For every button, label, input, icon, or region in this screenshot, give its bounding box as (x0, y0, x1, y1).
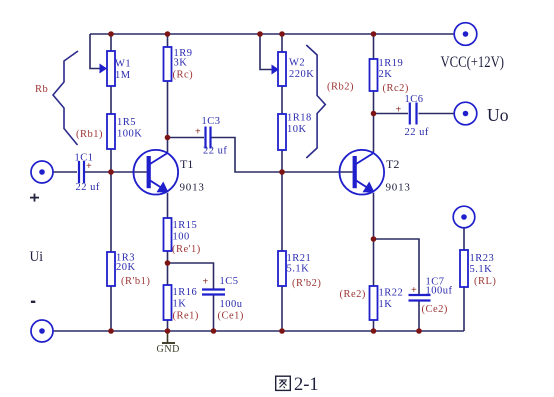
svg-text:(Rb1): (Rb1) (76, 129, 103, 140)
wire W2 wiper from rail (260, 34, 272, 70)
label R16 value (173, 287, 198, 310)
wire input terminal to C1 (53, 171, 77, 173)
svg-text:5.1K: 5.1K (287, 264, 310, 275)
svg-text:1M: 1M (115, 70, 131, 81)
svg-text:GND: GND (157, 344, 180, 355)
svg-text:5.1K: 5.1K (470, 264, 493, 275)
wire C6 to Uo terminal (419, 113, 455, 115)
label R15 value (173, 220, 198, 243)
terminal Uo (454, 102, 477, 125)
terminal VCC (454, 23, 477, 46)
svg-text:1R21: 1R21 (287, 253, 312, 264)
wire W1 wiper to VCC rail (90, 34, 101, 69)
svg-text:(Ce1): (Ce1) (218, 311, 244, 322)
wire R5 to base node (110, 149, 112, 172)
svg-text:(R'b2): (R'b2) (292, 278, 321, 289)
label R5 value (117, 117, 142, 140)
label C6 value (405, 94, 429, 138)
label R19 value (379, 58, 404, 80)
label R23 value (470, 253, 495, 275)
wire C7 to ground rail (418, 301, 420, 332)
label T1 name (180, 157, 205, 194)
wire T1 emitter to R15 (167, 193, 169, 218)
wire VCC top rail (90, 33, 454, 35)
svg-text:(RL): (RL) (474, 276, 496, 287)
wire emitter node 2 to C7 (374, 239, 420, 295)
resistor R9 (164, 47, 172, 81)
node VCC rail W1 (108, 31, 114, 37)
wire rail to R19 (373, 34, 375, 59)
svg-text:(Rc2): (Rc2) (383, 83, 409, 94)
label W1 value (115, 59, 131, 82)
potentiometer W1 (100, 51, 116, 86)
svg-text:100u: 100u (220, 299, 243, 310)
wire rail to W2 top (281, 34, 283, 52)
svg-text:1R15: 1R15 (173, 220, 198, 231)
label R3 value (116, 253, 136, 274)
capacitor C3 (206, 127, 211, 149)
wire collector node to C3 (168, 137, 205, 139)
svg-text:1K: 1K (173, 299, 187, 310)
node ground R16 (165, 328, 171, 334)
svg-text:+: + (203, 277, 209, 288)
node T2 emitter (371, 236, 377, 242)
svg-text:W2: W2 (289, 58, 305, 69)
svg-text:(Rb2): (Rb2) (327, 82, 354, 93)
wire R16 to ground rail (167, 320, 169, 331)
wire collector node 2 to C6 (374, 113, 409, 115)
label R18 value (287, 113, 312, 136)
wire ground rail (53, 330, 464, 332)
caption figure 2-1 (276, 375, 319, 395)
terminal input minus (31, 320, 53, 342)
label C7 value (426, 277, 453, 297)
svg-text:1C3: 1C3 (202, 116, 221, 127)
node ground C5 (211, 328, 217, 334)
resistor R3 (107, 252, 115, 286)
svg-text:1R18: 1R18 (287, 113, 312, 124)
node VCC rail W2 (279, 31, 285, 37)
svg-text:100uf: 100uf (426, 286, 453, 297)
wire R3 to ground rail (110, 286, 112, 331)
node ground R21 (279, 328, 285, 334)
wire R22 to ground rail (373, 320, 375, 331)
svg-text:(Ce2): (Ce2) (422, 304, 448, 315)
svg-text:+: + (411, 285, 417, 296)
node T2 collector (371, 111, 377, 117)
svg-text:3K: 3K (174, 58, 188, 69)
node T2 base (279, 169, 285, 175)
node VCC rail W2 wiper (257, 31, 263, 37)
wire ground rail riser to RL (463, 287, 465, 331)
svg-text:1R19: 1R19 (379, 58, 404, 69)
wire C3 to T2 base elbow (212, 138, 353, 173)
wire T2 base node to R21 (281, 172, 283, 251)
resistor R21 (278, 251, 286, 286)
svg-text:20K: 20K (116, 262, 136, 273)
wire R19 to collector node 2 (373, 91, 375, 114)
wire rail to R9 (167, 34, 169, 47)
wire collector node to T1 (167, 138, 169, 153)
capacitor C6 (410, 103, 417, 125)
transistor T2 (340, 150, 385, 195)
resistor R15 (164, 218, 172, 251)
wire W2 to R18 (281, 86, 283, 114)
resistor R22 (370, 286, 378, 320)
svg-text:9013: 9013 (180, 182, 205, 194)
svg-text:(Re'1): (Re'1) (172, 244, 201, 255)
svg-text:T1: T1 (180, 157, 193, 171)
svg-text:1K: 1K (379, 299, 393, 310)
node T1 base (108, 169, 114, 175)
svg-text:22 uf: 22 uf (203, 146, 227, 157)
wire C5 to ground rail (213, 295, 215, 331)
svg-text:W1: W1 (115, 59, 131, 70)
node VCC rail R19 (371, 31, 377, 37)
svg-text:100: 100 (173, 232, 190, 243)
label C1 value (75, 153, 100, 194)
ground GND symbol (157, 331, 180, 355)
wire emitter node 2 to R22 (373, 239, 375, 286)
node ground R22 (371, 328, 377, 334)
node VCC rail R9 (165, 31, 171, 37)
capacitor C7 (409, 295, 431, 301)
wire R21 to ground rail (281, 286, 283, 331)
terminal output ground (453, 206, 475, 228)
terminal input plus (31, 161, 53, 183)
resistor R18 (278, 114, 286, 150)
label C5 value (220, 276, 243, 310)
svg-text:1R5: 1R5 (117, 117, 136, 128)
svg-text:100K: 100K (117, 129, 142, 140)
capacitor C1 (79, 161, 84, 183)
label R22 value (379, 288, 404, 311)
wire R18 to T2 base node (281, 150, 283, 172)
wire R15 to emitter node (167, 251, 169, 263)
svg-text:1R23: 1R23 (470, 253, 495, 264)
svg-text:(Rc): (Rc) (173, 70, 194, 81)
potentiometer W2 (272, 52, 287, 86)
svg-text:1R16: 1R16 (173, 287, 198, 298)
svg-text:1R22: 1R22 (379, 288, 404, 299)
wire R9 to collector node (167, 81, 169, 138)
svg-text:1C5: 1C5 (220, 276, 239, 287)
node ground C7 (416, 328, 422, 334)
svg-text:9013: 9013 (386, 182, 411, 194)
wire collector node 2 to T2 (373, 114, 375, 153)
resistor R19 (370, 59, 378, 91)
label C3 value (202, 116, 228, 157)
wire emitter node to R16 (167, 263, 169, 285)
resistor R16 (164, 285, 172, 320)
resistor R5 (107, 114, 115, 149)
svg-text:VCC(+12V): VCC(+12V) (441, 54, 505, 71)
svg-text:T2: T2 (386, 157, 399, 171)
svg-text:+: + (195, 127, 201, 138)
node T1 collector (165, 135, 171, 141)
svg-text:2K: 2K (379, 69, 393, 80)
label input minus (31, 301, 35, 303)
wire RL to output terminal (463, 228, 465, 250)
svg-text:22 uf: 22 uf (76, 182, 100, 193)
capacitor C5 (202, 290, 225, 295)
label input plus (30, 194, 39, 202)
label R21 value (287, 253, 312, 275)
wire base node to R3 (110, 172, 112, 252)
svg-text:Ui: Ui (30, 249, 44, 265)
brace Rb (53, 51, 78, 145)
transistor T1 (134, 150, 179, 195)
node T1 emitter divider (165, 260, 171, 266)
svg-text:(R'b1): (R'b1) (121, 276, 150, 287)
label T2 name (386, 157, 411, 194)
wire T2 emitter to emitter node 2 (373, 193, 375, 239)
svg-text:(Re1): (Re1) (173, 311, 199, 322)
wire rail to W1 top (110, 34, 112, 51)
brace Rb2 (306, 45, 325, 158)
svg-text:+: + (86, 161, 92, 172)
resistor R23 (460, 250, 468, 287)
wire W1 to R5 (110, 86, 112, 114)
node ground R3 (108, 328, 114, 334)
svg-text:22 uf: 22 uf (405, 127, 429, 138)
svg-text:+: + (396, 105, 402, 116)
svg-text:2-1: 2-1 (294, 375, 319, 395)
label R9 value (174, 48, 193, 69)
svg-text:10K: 10K (287, 124, 307, 135)
label W2 value (289, 58, 314, 81)
svg-text:1C6: 1C6 (405, 94, 424, 105)
wire C1 to T1 base (85, 171, 147, 173)
svg-text:Rb: Rb (35, 84, 48, 95)
svg-text:(Re2): (Re2) (340, 289, 366, 300)
svg-text:220K: 220K (289, 69, 314, 80)
svg-text:Uo: Uo (487, 105, 509, 125)
wire emitter node to C5 (168, 263, 214, 289)
